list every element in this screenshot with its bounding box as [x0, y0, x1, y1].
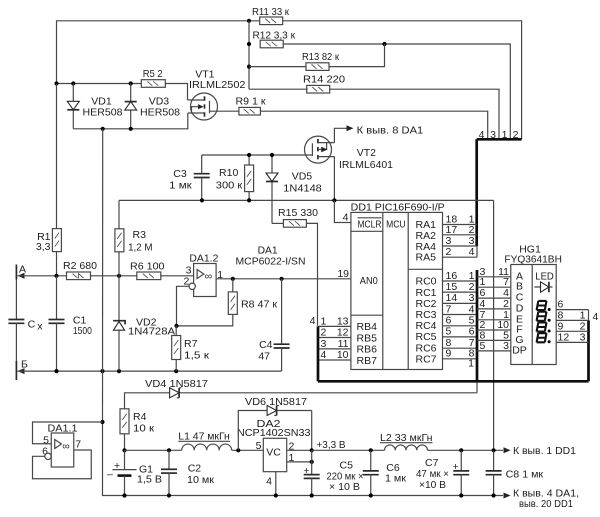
- svg-text:DP: DP: [512, 344, 527, 356]
- svg-text:4: 4: [469, 303, 475, 315]
- label DA1 MCP6022-I/SN: [236, 245, 306, 268]
- svg-text:1 мк: 1 мк: [169, 180, 192, 192]
- svg-text:C2: C2: [188, 463, 202, 475]
- wire R14 output to bus wire 3: [329, 89, 499, 139]
- resistor R11 33k: [252, 6, 289, 24]
- wire top rail with VD1 VD3 taps: [54, 81, 141, 85]
- svg-text:+: +: [303, 465, 309, 477]
- capacitor C6 1uF: [363, 450, 407, 495]
- arrow to pin 4 DA1 pin 20 DD1: [504, 487, 580, 510]
- svg-text:10 к: 10 к: [133, 423, 154, 435]
- svg-text:RB4: RB4: [357, 321, 378, 333]
- svg-text:3: 3: [580, 331, 586, 343]
- svg-text:R5 2: R5 2: [143, 68, 163, 80]
- svg-text:1,5 В: 1,5 В: [137, 473, 162, 485]
- svg-text:C3: C3: [173, 168, 187, 180]
- svg-text:R11 33 к: R11 33 к: [252, 6, 289, 18]
- svg-text:1: 1: [468, 358, 474, 370]
- svg-text:4: 4: [593, 311, 599, 323]
- svg-text:–: –: [107, 469, 113, 481]
- capacitor C8 1uF: [486, 450, 544, 495]
- resistor R10 300k: [216, 153, 254, 201]
- svg-text:10: 10: [337, 349, 349, 361]
- resistor R8 47k: [174, 279, 277, 328]
- svg-text:LED: LED: [535, 271, 554, 283]
- inductor L1 47uH: [178, 430, 231, 450]
- svg-text:А: А: [19, 263, 26, 275]
- svg-text:4: 4: [266, 475, 272, 487]
- svg-text:3: 3: [503, 340, 509, 352]
- seven segment digits in HG1: [537, 301, 551, 343]
- wire ground rail B: [18, 369, 282, 373]
- wire R5 to VT1 drain: [165, 84, 187, 101]
- svg-text:4: 4: [310, 315, 316, 327]
- svg-text:DA1.2: DA1.2: [189, 253, 218, 265]
- svg-text:15: 15: [446, 281, 458, 293]
- wire +3.3V rail: [312, 439, 385, 452]
- svg-text:MCU: MCU: [386, 218, 406, 230]
- wire battery rail to L1: [125, 448, 182, 452]
- svg-text:9: 9: [446, 348, 452, 360]
- svg-text:HER508: HER508: [140, 107, 180, 119]
- bus RA thick collector: [477, 139, 522, 257]
- RB pin wires to digit bus: [310, 315, 351, 361]
- svg-text:IRLML2502: IRLML2502: [189, 79, 246, 91]
- svg-text:К выв. 1 DD1: К выв. 1 DD1: [513, 445, 576, 457]
- svg-text:7: 7: [75, 438, 81, 450]
- svg-text:47: 47: [258, 351, 270, 363]
- svg-text:Б: Б: [21, 359, 28, 371]
- svg-text:19: 19: [337, 268, 349, 280]
- wire VD4 feed to display bus: [125, 393, 478, 409]
- HG1 segment wires from bus: [477, 266, 511, 352]
- arrow to pin 1 DD1: [504, 445, 577, 457]
- svg-text:FYQ3641BH: FYQ3641BH: [504, 253, 562, 265]
- op-amp DA1.1 follower: [42, 422, 81, 467]
- svg-text:R9 1 к: R9 1 к: [236, 96, 266, 108]
- svg-text:4: 4: [343, 212, 349, 224]
- svg-text:3: 3: [446, 235, 452, 247]
- diode VD3 HER508: [125, 84, 180, 129]
- svg-text:IRLML6401: IRLML6401: [339, 159, 393, 171]
- svg-text:+: +: [114, 460, 120, 472]
- svg-text:R8 47 к: R8 47 к: [241, 299, 277, 311]
- svg-text:∞: ∞: [62, 441, 70, 453]
- wire R9 output to bus wire 4: [261, 111, 488, 139]
- svg-text:5: 5: [446, 326, 452, 338]
- svg-text:R7: R7: [184, 338, 198, 350]
- svg-text:VD6 1N5817: VD6 1N5817: [245, 396, 307, 408]
- resistor R6 100: [130, 260, 165, 279]
- svg-text:MCLR: MCLR: [358, 219, 382, 231]
- svg-text:2: 2: [469, 281, 475, 293]
- svg-text:4: 4: [469, 246, 475, 258]
- wire ground bottom rail: [103, 422, 504, 498]
- svg-text:6: 6: [469, 326, 475, 338]
- resistor R2 680: [63, 260, 97, 280]
- wire DA1.1 feedback loop: [33, 450, 92, 479]
- capacitor C7 47uF: [416, 450, 469, 495]
- RC pin wires to bus: [443, 270, 478, 370]
- resistor R5 2: [141, 68, 165, 87]
- svg-text:R14 220: R14 220: [303, 74, 345, 86]
- svg-text:10 мк: 10 мк: [187, 474, 214, 486]
- capacitor C1 1500: [49, 276, 93, 371]
- svg-text:С: С: [28, 319, 36, 331]
- diode VD5 1N4148: [266, 153, 322, 224]
- svg-text:VT2: VT2: [357, 147, 376, 159]
- svg-text:300 к: 300 к: [216, 180, 243, 192]
- svg-text:1 мк: 1 мк: [385, 472, 406, 484]
- capacitor C4 47: [258, 279, 289, 371]
- svg-text:12: 12: [558, 331, 570, 343]
- wire +3.3V distribution net y200: [119, 198, 494, 202]
- svg-text:RB6: RB6: [357, 344, 378, 356]
- wire long vertical B net: [100, 129, 104, 424]
- svg-text:R2 680: R2 680: [63, 260, 97, 272]
- transistor VT2 IRLML6401: [202, 128, 393, 200]
- svg-text:4: 4: [321, 349, 327, 361]
- svg-text:VD5: VD5: [292, 171, 313, 183]
- HG1 digit common wires: [556, 299, 598, 344]
- svg-text:1,2 М: 1,2 М: [128, 242, 153, 254]
- svg-text:К выв. 8 DA1: К выв. 8 DA1: [357, 124, 424, 136]
- svg-text:C8 1 мк: C8 1 мк: [506, 469, 544, 481]
- svg-text:VD4 1N5817: VD4 1N5817: [145, 378, 208, 390]
- arrow to pin 8 DA1: [347, 124, 424, 136]
- svg-text:R6 100: R6 100: [130, 260, 165, 272]
- wire R14 left corner: [249, 88, 308, 90]
- svg-text:L2 33 мкГн: L2 33 мкГн: [380, 432, 433, 444]
- svg-text:NCP1402SN33: NCP1402SN33: [237, 427, 311, 439]
- svg-text:RB7: RB7: [357, 355, 378, 367]
- IC DA2 NCP1402SN33: [237, 418, 311, 488]
- svg-text:3,3: 3,3: [36, 241, 51, 253]
- svg-text:C4: C4: [259, 339, 273, 351]
- resistor R14 220: [303, 74, 345, 94]
- svg-text:выв. 20 DD1: выв. 20 DD1: [519, 498, 573, 510]
- svg-text:×10 В: ×10 В: [419, 479, 446, 491]
- bus RC thick collector: [476, 270, 479, 393]
- resistor R13 82k: [302, 51, 339, 70]
- capacitor Cx measured: [8, 280, 43, 362]
- resistor R3 1.2M: [115, 200, 153, 275]
- svg-text:∞: ∞: [205, 271, 213, 283]
- svg-text:DA1.1: DA1.1: [48, 422, 78, 434]
- svg-text:1,5 к: 1,5 к: [184, 350, 209, 362]
- wire R12 output to bus wire 1: [283, 42, 510, 139]
- svg-text:1N4728A: 1N4728A: [128, 326, 175, 338]
- svg-text:MCP6022-I/SN: MCP6022-I/SN: [236, 255, 306, 267]
- wire DA1.2 inverting input loop: [177, 286, 190, 326]
- display HG1 FYQ3641BH: [504, 243, 562, 364]
- svg-text:х: х: [37, 321, 43, 333]
- svg-text:3: 3: [469, 235, 475, 247]
- inductor L2 33uH: [380, 432, 433, 451]
- op-amp DA1.2 MCP6022: [184, 253, 224, 297]
- wire VD1 VD3 bottom to VT1 source: [73, 113, 188, 131]
- svg-text:R13 82 к: R13 82 к: [302, 51, 339, 63]
- transistor VT1 IRLML2502: [188, 69, 246, 120]
- svg-text:7: 7: [446, 303, 452, 315]
- resistor R7 1.5k: [172, 326, 210, 371]
- capacitor C3 1uF: [169, 155, 210, 200]
- wire column to R12 R13 R14: [247, 21, 251, 89]
- svg-text:5: 5: [256, 440, 262, 452]
- svg-text:5: 5: [480, 340, 486, 352]
- svg-text:R3: R3: [133, 229, 147, 241]
- svg-text:12: 12: [337, 327, 349, 339]
- svg-text:2: 2: [321, 327, 327, 339]
- resistor R1 3.3: [36, 84, 62, 276]
- capacitor C5 220uF: [303, 459, 363, 495]
- svg-text:2: 2: [469, 224, 475, 236]
- RA pin wires to bus: [443, 214, 478, 259]
- wire DA1.1 pin5 input: [33, 422, 103, 444]
- diode VD4 1N5817: [145, 378, 208, 398]
- resistor R15 330: [272, 207, 318, 326]
- wire MCLR pin 4: [334, 200, 351, 223]
- svg-text:R10: R10: [219, 167, 238, 179]
- wire R13 left: [249, 66, 306, 68]
- svg-text:× 10 В: × 10 В: [329, 481, 360, 493]
- wire measure rail A: [18, 274, 194, 278]
- wire L2 to output arrow: [428, 448, 504, 452]
- svg-text:L1 47 мкГн: L1 47 мкГн: [178, 430, 230, 442]
- wire R11 output to bus wire 2: [283, 21, 522, 140]
- svg-text:R12 3,3 к: R12 3,3 к: [253, 29, 296, 41]
- svg-text:VC: VC: [266, 446, 281, 458]
- wire DA2 outputs to +3.3V node: [287, 448, 314, 464]
- diode VD1 HER508: [67, 84, 122, 129]
- svg-text:R15 330: R15 330: [278, 207, 318, 219]
- terminal A probe: [16, 263, 26, 279]
- terminal B probe: [16, 359, 28, 381]
- resistor R9 1k: [236, 96, 266, 116]
- svg-text:RB5: RB5: [357, 332, 378, 344]
- wire DA1.2 output to AN0: [216, 268, 351, 281]
- wire DA2 pin4 ground: [275, 472, 277, 496]
- svg-text:R4: R4: [133, 411, 147, 423]
- svg-text:2: 2: [446, 246, 452, 258]
- battery G1 1.5V: [107, 448, 162, 495]
- bus wire numbers 4 3 1 2: [479, 129, 519, 141]
- svg-text:1N4148: 1N4148: [283, 183, 322, 195]
- zener VD2 1N4728A: [113, 276, 175, 371]
- svg-text:17: 17: [446, 224, 458, 236]
- svg-text:AN0: AN0: [360, 275, 378, 287]
- wire +3.3V vertical to bottom rail: [493, 200, 495, 450]
- svg-text:+3,3 В: +3,3 В: [317, 439, 346, 451]
- IC DD1 PIC16F690-I/P: [351, 202, 445, 370]
- svg-text:+: +: [453, 461, 459, 473]
- resistor R12 3.3k: [253, 29, 296, 48]
- resistor R4 10k: [120, 409, 154, 451]
- bus digit thick collector: [318, 310, 589, 382]
- svg-text:RA5: RA5: [416, 252, 437, 264]
- svg-text:RC7: RC7: [416, 353, 437, 365]
- capacitor C2 10uF: [161, 450, 214, 495]
- wire R13 output up to R12 net: [329, 44, 385, 67]
- wire L1 to DA2 pin5: [232, 448, 264, 452]
- wire top charge rail from corner to R11: [57, 19, 260, 84]
- diode VD6 1N5817 bypass: [238, 396, 311, 450]
- svg-text:1500: 1500: [73, 325, 92, 337]
- svg-text:HER508: HER508: [83, 107, 123, 119]
